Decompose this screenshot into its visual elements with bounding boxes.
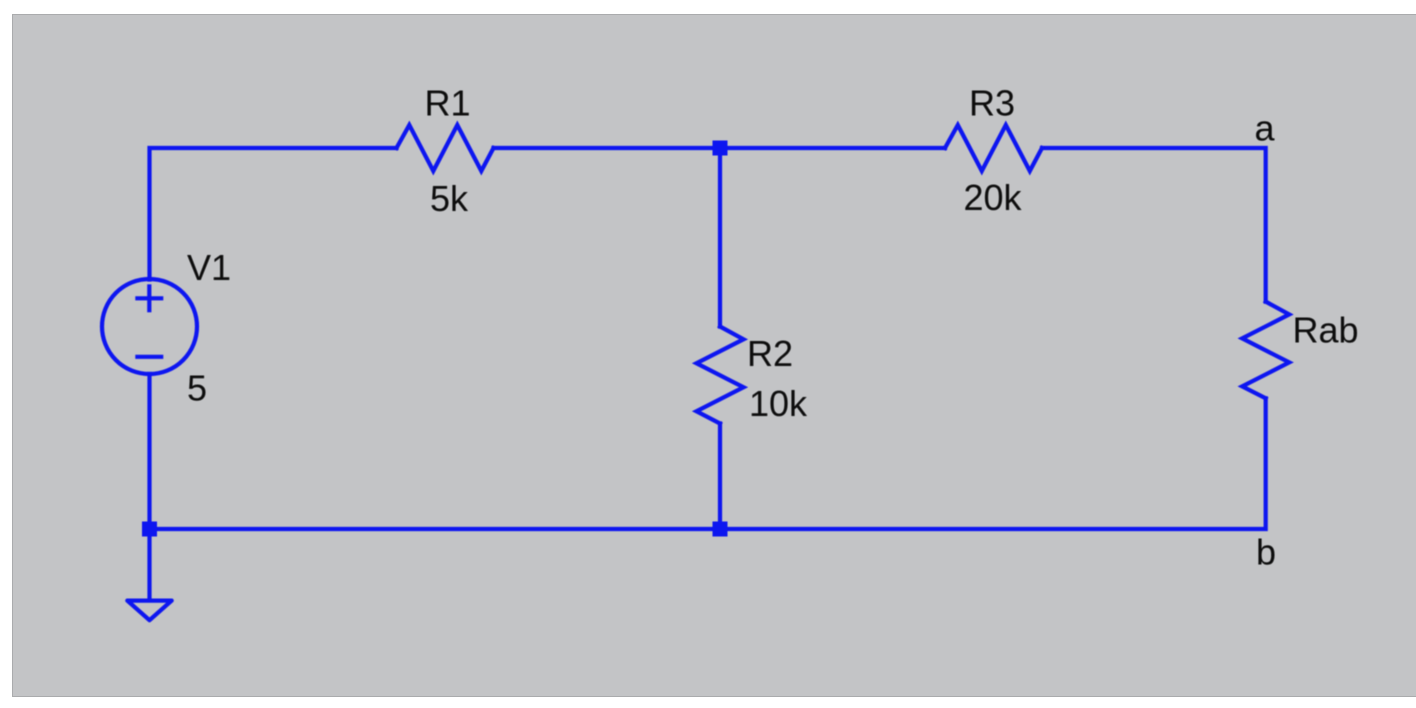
- wire top-left to R1: [150, 148, 397, 280]
- resistor Rab: [1242, 302, 1289, 399]
- junction node top middle: [713, 141, 728, 156]
- svg-text:R1: R1: [425, 83, 471, 124]
- wire Rab bottom to node b corner: [150, 398, 1266, 529]
- svg-text:10k: 10k: [749, 383, 808, 424]
- svg-text:a: a: [1255, 108, 1276, 149]
- wire R3 to node a corner: [1042, 148, 1266, 302]
- wire ground stem: [147, 529, 151, 599]
- svg-text:5k: 5k: [430, 178, 469, 219]
- svg-text:Rab: Rab: [1293, 309, 1359, 350]
- resistor R1: [397, 125, 494, 171]
- svg-text:b: b: [1256, 532, 1276, 573]
- voltage source V1: [102, 279, 197, 374]
- resistor R3: [945, 125, 1042, 171]
- junction node bottom middle: [713, 522, 728, 537]
- wire top junction down to R2: [718, 148, 722, 327]
- svg-text:5: 5: [187, 368, 207, 409]
- svg-text:V1: V1: [187, 247, 231, 288]
- wire V1 bottom to ground junction: [147, 374, 151, 529]
- svg-text:20k: 20k: [964, 177, 1023, 218]
- wire R2 bottom to bottom junction: [718, 424, 722, 530]
- resistor R2: [697, 327, 744, 424]
- svg-text:R2: R2: [747, 333, 793, 374]
- svg-text:R3: R3: [969, 83, 1015, 124]
- junction node bottom left: [142, 522, 157, 537]
- wire R1 to R3 through top junction: [494, 146, 946, 150]
- ground: [127, 601, 171, 621]
